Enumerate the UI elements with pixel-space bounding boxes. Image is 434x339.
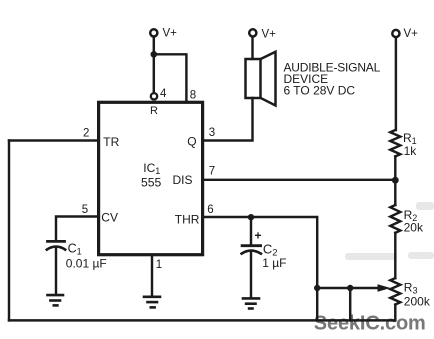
svg-text:7: 7 — [209, 166, 215, 178]
wire C2 to ground — [250, 252, 252, 297]
terminal V+ right rail — [392, 30, 399, 37]
wire C1 to ground — [55, 248, 57, 293]
terminal V+ over IC — [150, 29, 157, 36]
wiper arrowhead — [378, 284, 391, 292]
svg-text:5: 5 — [82, 204, 88, 216]
op-amp/timer IC1 555 body — [99, 102, 203, 254]
wire R2 to R3 — [394, 233, 396, 278]
speaker horn — [261, 52, 276, 106]
svg-text:V+: V+ — [163, 28, 178, 40]
capacitor C2 curved plate — [242, 251, 261, 254]
node DIS junction on rail — [392, 177, 399, 184]
svg-text:6 TO 28V DC: 6 TO 28V DC — [284, 84, 356, 98]
node THR/C2 junction — [248, 214, 254, 220]
wire junction to pin 8 — [154, 54, 187, 101]
resistor R3 zigzag (pot) — [390, 278, 400, 304]
wire Q pin3 to speaker — [203, 98, 253, 141]
resistor R2 zigzag — [390, 205, 400, 233]
wire V+ to R1 — [395, 38, 397, 131]
wire junction B to bottom rail — [349, 288, 351, 320]
svg-text:1 µF: 1 µF — [262, 256, 286, 270]
svg-text:4: 4 — [160, 88, 167, 100]
svg-text:+: + — [255, 229, 262, 243]
wire TR pin2 to left loop — [9, 139, 99, 141]
wire bottom rail — [9, 319, 395, 321]
wire R3 to bottom rail — [394, 305, 396, 321]
svg-text:C1: C1 — [68, 241, 82, 256]
svg-text:200k: 200k — [404, 295, 431, 309]
svg-text:TR: TR — [103, 135, 119, 149]
svg-text:6: 6 — [207, 204, 213, 216]
scan ghost artifacts (faint) — [345, 202, 434, 260]
ground below C1 — [48, 295, 64, 305]
node wiper junction B — [347, 285, 353, 291]
wire CV pin5 to C1 — [56, 217, 99, 241]
wire pin1 to ground — [151, 256, 153, 295]
speaker driver rectangle — [246, 59, 261, 98]
svg-text:Q: Q — [187, 134, 196, 148]
capacitor C1 curved plate — [47, 247, 65, 250]
wire wiper line — [317, 287, 378, 289]
wire DIS pin7 to right rail — [203, 179, 396, 181]
svg-text:V+: V+ — [262, 28, 277, 40]
svg-text:SeekIC.com: SeekIC.com — [314, 313, 426, 335]
svg-text:R: R — [150, 105, 158, 117]
node wiper junction A — [314, 285, 320, 291]
svg-text:V+: V+ — [404, 28, 419, 40]
svg-text:2: 2 — [83, 127, 89, 139]
wire THR pin6 to down-post — [203, 217, 318, 320]
wire left loop vertical — [8, 141, 10, 321]
svg-text:DIS: DIS — [173, 173, 193, 187]
ground below pin 1 — [144, 297, 160, 308]
svg-text:20k: 20k — [404, 221, 424, 235]
wire speaker to V+ — [251, 37, 253, 59]
node junction pin4/pin8 — [151, 51, 158, 58]
svg-text:3: 3 — [209, 127, 215, 139]
resistor R1 zigzag — [390, 130, 400, 156]
svg-text:0.01 µF: 0.01 µF — [66, 257, 107, 271]
wire V+ down to pin 4 — [153, 37, 155, 92]
svg-text:THR: THR — [175, 213, 200, 227]
wire R1 to R2 — [394, 156, 396, 205]
svg-text:8: 8 — [190, 90, 196, 102]
svg-text:IC1: IC1 — [143, 161, 160, 176]
svg-text:555: 555 — [141, 175, 162, 189]
svg-text:CV: CV — [101, 211, 118, 225]
capacitor C2 top plate — [242, 244, 261, 247]
capacitor C1 top plate — [48, 240, 65, 243]
pin 4 circle — [151, 93, 157, 99]
wire C2 top — [250, 217, 252, 244]
svg-text:R3: R3 — [404, 281, 418, 296]
svg-text:1k: 1k — [404, 144, 418, 158]
svg-text:1: 1 — [156, 259, 162, 271]
ground below C2 — [243, 298, 259, 308]
terminal V+ over speaker — [249, 29, 256, 36]
